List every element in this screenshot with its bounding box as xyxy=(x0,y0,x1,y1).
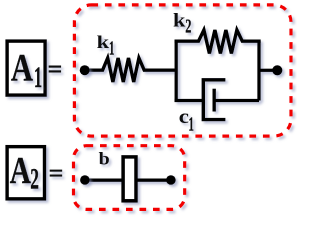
svg-text:b: b xyxy=(99,150,110,169)
svg-text:k: k xyxy=(173,11,186,31)
svg-text:k: k xyxy=(97,33,110,52)
svg-text:1: 1 xyxy=(109,38,114,59)
svg-text:A: A xyxy=(11,46,33,89)
svg-text:1: 1 xyxy=(34,62,42,94)
svg-text:2: 2 xyxy=(185,14,191,37)
svg-text:c: c xyxy=(179,105,190,127)
svg-text:A: A xyxy=(10,150,31,192)
svg-text:1: 1 xyxy=(189,114,194,135)
svg-text:2: 2 xyxy=(30,163,39,196)
